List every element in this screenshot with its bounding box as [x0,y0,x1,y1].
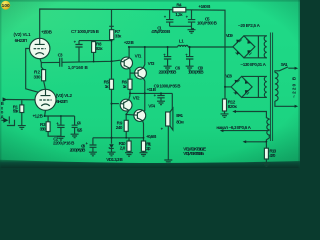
ground under R11 [140,153,148,157]
svg-text:д: д [1,114,4,119]
wire bias line [93,137,144,139]
svg-text:82к: 82к [96,46,103,51]
svg-text:VD3: VD3 [225,74,232,79]
transformer T1 20V secondary winding [264,36,267,58]
wire VL2 cathode node [45,110,75,116]
capacitor C4 [72,116,78,134]
input connector shield [1,116,14,125]
svg-text:VD9: VD9 [226,33,233,38]
svg-text:С7 1000,0*25 В: С7 1000,0*25 В [71,29,100,34]
resistor R13 body [264,148,268,159]
resistor R4 in top rail [173,7,186,12]
svg-text:ВА1: ВА1 [176,113,183,118]
capacitor C8 [90,138,97,152]
ground under C2 [57,137,65,141]
capacitor C2 [57,116,64,136]
svg-text:+0,6 В: +0,6 В [146,134,157,139]
ground under C5 [188,30,196,34]
svg-text:470: 470 [269,153,275,158]
resistor R12 body [224,111,226,114]
resistor R3 body [48,116,61,136]
svg-text:VT1: VT1 [135,54,142,59]
wire: signal line VL1 cathode to VT1 base [41,60,120,62]
tube VL1 cathode [35,53,44,55]
capacitor C3 coupling plates [60,58,62,67]
wire R1 bottom to ground [21,113,23,126]
resistor R9 body [124,120,128,131]
ground under C4 [71,134,79,138]
wire VT2 base tick [112,103,119,105]
svg-text:+22 В: +22 В [124,40,135,45]
resistor R5 body (in main vertical) [110,79,114,89]
transistor VT1 [121,57,133,69]
svg-text:33к: 33к [115,33,122,38]
resistor R11 body [141,141,145,151]
svg-text:22000,0*35 В: 22000,0*35 В [159,70,178,75]
ground under R10 [125,153,133,157]
zener diode VD1 [111,138,113,152]
wire node A horizontal [79,40,112,42]
ground under C6 [164,66,172,70]
wire +11V output line [130,92,172,94]
wire VT4 base to VT2 emitter line [126,113,134,116]
ground under R1 [18,126,26,130]
wire heater top lead with arrow [235,112,270,120]
wire speaker to ground [167,126,169,160]
wire VT3 base to VT1 emitter line [130,72,135,74]
wire VT3 emitter / VT4 collector to output node [143,78,145,111]
resistor R8 body [93,41,95,62]
svg-text:накал ~6,3 В*0,6 А: накал ~6,3 В*0,6 А [216,125,251,130]
wire C1 C5 common [170,26,192,29]
svg-text:~220 В: ~220 В [292,76,297,98]
svg-text:(V2) VL1: (V2) VL1 [14,32,31,37]
diode bridge VD5-VD8 [233,36,255,58]
svg-text:~20 В*2,5 А: ~20 В*2,5 А [238,23,261,28]
svg-text:2,0: 2,0 [120,145,126,150]
polarity plus marks [56,14,188,145]
transistor VT2 [120,99,132,111]
capacitor C9 [157,93,164,101]
svg-text:6Н23П: 6Н23П [15,38,28,43]
svg-text:1,2к: 1,2к [175,12,183,17]
ground under R12 [221,114,229,118]
input pin arrow [3,97,8,101]
svg-text:330: 330 [34,75,41,80]
capacitor C7 [75,41,82,62]
wire heater mid lead with arrow [223,130,270,132]
transistor VT4 [134,110,146,122]
svg-text:2,0: 2,0 [146,146,151,151]
svg-text:+160 В: +160 В [198,4,211,9]
wire bridge1 AC leads to winding [244,36,267,58]
svg-text:6Н23П: 6Н23П [56,99,67,104]
transformer T1 220V primary winding [275,73,278,102]
diode bridge VD1-VD4 [231,76,252,97]
tube VL2 grid [39,99,51,101]
resistor R7 body and leads from rail [109,9,114,29]
tube VL1 anode [35,38,45,44]
wire VL1 grid to VL2 anode node [26,49,38,93]
resistor R10 body [128,138,130,153]
svg-text:8 Ом: 8 Ом [176,120,184,125]
svg-text:L1: L1 [179,38,184,43]
tube VL1 envelope [30,38,50,58]
svg-text:VT2: VT2 [133,95,140,100]
wire input to VL2 grid [7,100,35,105]
svg-text:~130 В*0,01 А: ~130 В*0,01 А [240,62,266,67]
wire heater bottom lead to R13 [245,138,269,149]
tube VL2 envelope [35,89,56,110]
wire top rail corner to bridge VD1-VD4 and R12 [225,86,231,88]
transformer T1 heater winding 6.3V [267,119,270,137]
svg-text:1к: 1к [105,84,110,89]
speaker BA1 [166,112,170,126]
svg-text:100,0*300 В: 100,0*300 В [197,20,218,25]
svg-text:475,0*200 В: 475,0*200 В [151,29,171,34]
svg-text:VT3, VT4 - КТ819Б: VT3, VT4 - КТ819Б [183,151,205,156]
transistor VT3 [135,67,147,79]
wire VT4 emitter down to R11 [142,121,145,141]
svg-text:С9 1000,0*35 В: С9 1000,0*35 В [154,83,182,88]
svg-text:+150 В: +150 В [41,30,53,35]
svg-text:VD1 3,3 В: VD1 3,3 В [106,157,123,162]
wire +22V rail to bridge VD5-VD8 [129,46,233,48]
transformer core [270,33,272,142]
wire main vertical node A to bias node [111,40,113,138]
svg-text:2000,0*6,3 В: 2000,0*6,3 В [70,148,86,153]
svg-text:С3: С3 [58,53,63,58]
svg-text:VT3: VT3 [148,61,155,66]
watermark badge top-left [1,1,10,10]
svg-text:240: 240 [116,125,123,130]
wire VT1 collector to +22V rail [128,47,130,58]
switch SA1 [275,67,296,73]
wire: +150V top rail from VL1 anode to right corner down to R12 [40,9,225,99]
ground under speaker [164,160,172,163]
wire R2 to VL2 anode [44,81,46,90]
wire VL1 cathode down to R2 [40,59,44,70]
ground under C10 [186,66,194,70]
svg-text:820к: 820к [228,104,238,109]
svg-text:VT4: VT4 [148,104,155,109]
tube VL2 cathode [41,104,50,106]
wire R9 bottom to bias wire [125,131,127,138]
svg-text:0,25: 0,25 [77,127,83,132]
inductor L1 [178,45,188,47]
ground under VD1 [108,152,116,156]
capacitor C10 [186,47,193,66]
svg-text:С4: С4 [77,120,81,125]
wire VT2 emitter down to R9 [126,110,129,120]
resistor R6 body [128,79,132,89]
wire VT1 emitter to R6 [128,68,131,79]
svg-text:SA1: SA1 [281,62,288,67]
wire output down to speaker [171,93,173,109]
svg-text:1,0*160 В: 1,0*160 В [68,65,89,70]
wire VT3 collector to +22V rail [143,47,145,68]
transformer T1 130V secondary winding [264,76,266,97]
ground under C9 [157,101,165,105]
svg-text:56к: 56к [13,109,19,114]
label input stacked vertical [1,101,4,119]
wire bridge2 AC leads to winding [242,76,267,97]
ground under R13 [262,163,270,166]
svg-text:10000,0*35 В: 10000,0*35 В [188,70,204,75]
subtle screen edges [0,0,300,2]
bottom dark band [0,160,300,168]
capacitor C1 [166,10,173,27]
svg-text:330: 330 [40,126,46,131]
capacitor C5 [188,10,195,26]
resistor R1 body [20,105,24,113]
svg-text:2200,0*16 В: 2200,0*16 В [53,141,75,146]
svg-text:100: 100 [2,3,10,8]
svg-text:R4: R4 [176,3,182,8]
svg-text:1к: 1к [123,84,128,89]
capacitor C6 [164,47,171,66]
wire VT2 collector / R6 bottom crossing +11V rail [129,89,130,100]
svg-text:(V3) VL2: (V3) VL2 [56,93,73,98]
ground under C8 [89,152,97,156]
svg-text:+1,2 В: +1,2 В [33,114,44,119]
resistor R2 body [42,70,46,81]
tube VL2 anode [41,89,51,95]
tube VL1 grid [34,48,46,50]
wire primary bottom with arrow [275,101,296,106]
